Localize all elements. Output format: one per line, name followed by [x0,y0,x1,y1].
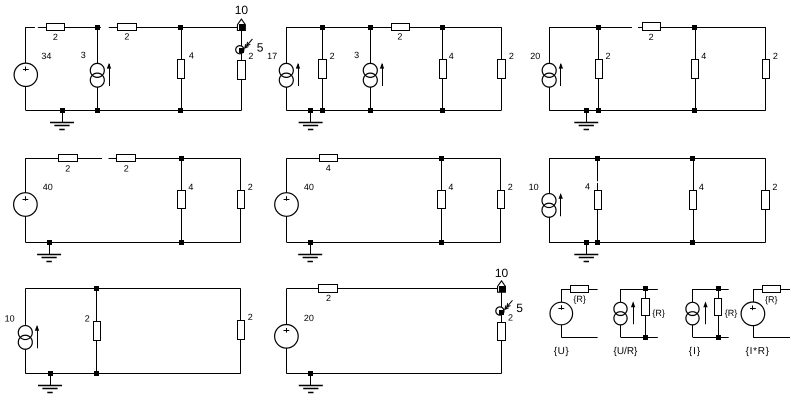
circuit8 series resistor 2 [319,285,338,304]
circuit2 resistor-4 branch wire [442,27,444,110]
circuit1 node at resistor 4 branch (top) [178,25,183,30]
legend U: resistor {R} [571,286,589,293]
circuit1 current source branch wire [97,27,99,110]
circuit3 resistor-2 branch wire [598,27,600,110]
legend I*R: label {R} [765,294,778,304]
circuit2 ground [299,108,323,130]
circuit4 left wire [25,158,27,242]
svg-text:2: 2 [248,312,253,322]
circuit3 right wire [765,27,767,110]
svg-text:10: 10 [5,313,15,323]
circuit2 top wire [286,27,501,29]
svg-text:2: 2 [124,32,129,42]
svg-text:2: 2 [326,293,331,303]
svg-text:10: 10 [235,3,249,17]
svg-text:2: 2 [772,182,777,192]
circuit2 bottom node at resistor 4 [440,108,445,113]
circuit7 top wire [25,288,241,290]
svg-text:{I}: {I} [689,346,701,357]
legend U/R: top node [643,286,648,291]
circuit1 bottom node at resistor 4 [178,108,183,113]
circuit5 resistor-4 branch wire [441,158,443,242]
circuit3 top node at resistor 2 branch [596,25,601,30]
svg-text:2: 2 [124,163,129,173]
circuit5 top wire [287,158,501,160]
circuit1 bottom wire [26,110,242,112]
circuit1 voltage source 34V [14,51,51,87]
svg-text:4: 4 [188,182,193,192]
svg-text:2: 2 [330,51,335,61]
circuit5 right resistor 2 [498,182,513,208]
svg-text:20: 20 [304,313,314,323]
circuit2 top node at resistor 4 branch [440,25,445,30]
svg-text:2: 2 [248,182,253,192]
circuit1 current probe 5 [236,39,264,61]
circuit3 resistor-4 branch wire [695,27,697,110]
circuit8 right branch wire [501,292,503,373]
circuit7 right wire [240,289,242,374]
circuit3 bottom node at resistor 2 [596,108,601,113]
circuit7 right resistor 2 [238,312,253,339]
svg-text:40: 40 [304,182,314,192]
legend U: voltage source [550,302,573,325]
circuit2 current source 17A [267,51,300,87]
legend U: caption {U} [554,346,570,357]
legend U/R: caption {U/R} [614,346,639,357]
circuit2 top node at current source 3 [368,25,373,30]
svg-text:4: 4 [699,182,704,192]
svg-text:{R}: {R} [652,308,665,318]
circuit7 resistor-2 branch wire [96,289,98,374]
circuit2 left wire [286,27,288,110]
circuit8 ground [299,371,323,393]
svg-text:3: 3 [81,50,86,60]
circuit7 bottom node at resistor 2 [94,371,99,376]
svg-text:{I*R}: {I*R} [746,346,770,357]
svg-text:2: 2 [649,32,654,42]
circuit2 current source 3A [354,50,384,87]
svg-text:4: 4 [189,51,194,61]
circuit4 bottom wire [25,242,240,244]
circuit3 bottom wire [549,110,766,112]
legend I: resistor {R} [715,299,722,316]
circuit7 shunt resistor 2 [85,313,101,340]
svg-text:4: 4 [326,163,331,173]
circuit5 right wire [500,158,502,242]
circuit8 current probe 5 [496,300,524,322]
circuit8 voltage source 20V [275,313,314,348]
circuit2 bottom node at resistor 2 [320,108,325,113]
legend I*R: caption {I*R} [746,346,770,357]
circuit8 top wire [286,288,501,290]
svg-text:2: 2 [509,51,514,61]
circuit8 net label 10 [495,266,509,292]
legend I*R: wires [753,289,790,338]
circuit2 top node at resistor 2 branch [320,25,325,30]
svg-text:10: 10 [529,182,539,192]
circuit6 bottom node at second resistor 4 [690,240,695,245]
circuit3 top wire [549,27,766,29]
circuit1 net label 10 [235,3,249,31]
circuit5 bottom node at resistor 4 [439,240,444,245]
circuit7 ground [38,371,62,393]
circuit4 ground [37,240,61,262]
circuit6 left wire [549,158,551,242]
svg-text:4: 4 [701,51,706,61]
svg-text:4: 4 [449,51,454,61]
legend I: top node [716,286,721,291]
circuit3 series resistor 2 [643,23,661,42]
circuit6 shunt resistor 4 (first) [585,182,602,210]
svg-text:{U}: {U} [554,346,570,357]
circuit5 series resistor 4 [320,155,338,174]
circuit6 bottom wire [549,242,766,244]
circuit3 top node at resistor 4 branch [692,25,697,30]
circuit4 right resistor 2 [238,182,253,208]
legend U: wires [561,289,597,338]
svg-text:3: 3 [354,50,359,60]
circuit1 ground [50,108,74,130]
legend U/R: current source [614,301,635,325]
svg-text:40: 40 [43,182,53,192]
circuit1 node at current source branch (top) [95,25,100,30]
circuit8 left wire [286,289,288,374]
circuit2 right resistor 2 [498,51,514,79]
circuit1 right resistor 2 [238,61,246,80]
circuit3 right resistor 2 [763,51,778,79]
circuit2 bottom node at current source 3 [368,108,373,113]
svg-text:2: 2 [773,51,778,61]
svg-text:20: 20 [530,51,540,61]
circuit7 bottom wire [25,373,241,375]
circuit4 resistor-4 branch wire [181,158,183,242]
circuit3 left wire [549,27,551,110]
svg-text:{R}: {R} [765,294,778,304]
circuit1 current source 3A [81,50,111,87]
circuit4 series resistor 2 (right) [117,155,136,174]
legend U: label {R} [573,294,586,304]
circuit1 top wire [26,27,242,29]
circuit2 resistor-2 branch wire [322,27,324,110]
legend I*R: resistor {R} [763,286,781,293]
svg-text:{R}: {R} [725,308,738,318]
circuit2 shunt resistor 4 [440,51,454,79]
circuit6 bottom node at first resistor 4 [595,240,600,245]
circuit3 ground [574,108,598,130]
circuit6 first resistor-4 branch wire [597,158,599,242]
circuit3 bottom node at resistor 4 [692,108,697,113]
circuit6 top node at first resistor 4 [595,156,600,161]
circuit1 series resistor 2 (right) [118,24,137,42]
circuit2 series resistor 2 [392,24,410,42]
circuit1 bottom node at current source [95,108,100,113]
svg-text:2: 2 [397,32,402,42]
svg-text:2: 2 [508,182,513,192]
circuit7 top node at resistor 2 branch [94,286,99,291]
svg-text:2: 2 [53,32,58,42]
svg-text:10: 10 [495,266,509,280]
circuit7 left wire [25,289,27,374]
circuit4 top node at resistor 4 branch [179,156,184,161]
legend I: label {R} [725,308,738,318]
svg-text:4: 4 [585,182,590,192]
circuit4 shunt resistor 4 [178,182,194,208]
circuit2 right wire [501,27,503,110]
circuit6 right wire [765,158,767,242]
circuit3 shunt resistor 4 [692,51,707,79]
circuit1 series resistor 2 (left) [47,24,65,42]
legend I: current source [686,301,708,325]
svg-text:5: 5 [516,301,523,315]
circuit5 bottom wire [287,242,501,244]
circuit5 left wire [286,158,288,242]
circuit6 ground [574,240,598,262]
circuit7 current source 10A [5,313,40,349]
svg-text:{U/R}: {U/R} [614,346,639,357]
circuit1 resistor-4 branch wire [181,27,183,110]
circuit6 top node at second resistor 4 [690,156,695,161]
circuit2 current source 3 branch wire [370,27,372,110]
legend I*R: voltage source [741,302,765,326]
circuit6 top wire [549,158,766,160]
circuit4 right wire [240,158,242,242]
circuit1 right branch wire [241,31,243,111]
circuit8 right resistor 2 [498,323,506,341]
circuit6 second resistor-4 branch wire [693,158,695,242]
circuit1 left wire [25,27,27,110]
svg-text:2: 2 [606,51,611,61]
legend I: wires [693,289,729,338]
circuit4 bottom node at resistor 4 [179,240,184,245]
svg-text:2: 2 [248,51,253,61]
svg-text:34: 34 [41,51,51,61]
svg-text:2: 2 [508,313,513,323]
legend U/R: resistor {R} [642,299,650,316]
circuit5 ground [298,240,322,262]
svg-text:4: 4 [448,182,453,192]
svg-text:5: 5 [257,41,264,55]
legend I: caption {I} [689,346,701,357]
circuit5 top node at resistor 4 branch [439,156,444,161]
circuit5 voltage source 40V [275,182,314,216]
svg-text:{R}: {R} [573,294,586,304]
circuit5 shunt resistor 4 [438,182,454,208]
circuit8 bottom wire [286,373,501,375]
circuit6 current source 10A [529,182,563,217]
circuit3 shunt resistor 2 [596,51,611,79]
circuit4 voltage source 40V [14,182,53,216]
circuit4 top wire [25,158,240,160]
legend I: bottom node [716,335,721,340]
circuit6 right resistor 2 [762,182,778,209]
circuit1 shunt resistor 4 [178,51,194,79]
svg-text:2: 2 [85,313,90,323]
circuit2 bottom wire [286,110,501,112]
circuit4 series resistor 2 (left) [59,155,78,174]
legend U/R: bottom node [643,335,648,340]
svg-text:17: 17 [267,51,277,61]
circuit3 current source 20A [530,51,563,87]
legend U/R: wires [621,289,658,338]
svg-text:2: 2 [65,163,70,173]
circuit2 shunt resistor 2 [319,51,335,79]
legend U/R: label {R} [652,308,665,318]
circuit6 shunt resistor 4 (second) [690,182,704,209]
